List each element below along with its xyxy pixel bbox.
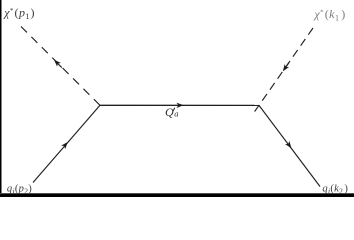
wire: horizontal squark propagator Q'_a: [100, 104, 259, 106]
svg-text:χ*(k1): χ*(k1): [313, 7, 345, 23]
svg-text:a: a: [174, 109, 178, 119]
wire: bottom horizontal rule: [0, 194, 354, 197]
wire: solid quark line q_i(p2) (bottom-left to left vertex): [33, 105, 100, 182]
wire: left border vertical line: [0, 0, 2, 197]
svg-text:qi(k2): qi(k2): [322, 184, 348, 196]
wire: arrow on left dashed line (pointing up-left): [52, 58, 64, 70]
svg-text:qi(p2): qi(p2): [7, 184, 32, 196]
svg-text:Q: Q: [165, 105, 174, 119]
wire: solid quark line q_i(k2) (right vertex to bottom-right): [259, 105, 320, 186]
wire: arrow on right dashed line (pointing down-left): [281, 61, 292, 73]
wire: arrow on horizontal line (pointing right): [176, 103, 183, 108]
wire: dashed chi*(p1) propagator (top-left to left vertex): [21, 27, 100, 106]
node: left vertex: [0, 0, 1, 1]
wire: dashed chi*(k1) propagator (top-right to right vertex, overshoots): [255, 28, 313, 112]
wire: arrow on bottom-right line (pointing down-right): [285, 141, 294, 150]
svg-text:χ*(p1): χ*(p1): [3, 6, 35, 22]
wire: arrow on bottom-left line (pointing up-right): [61, 140, 70, 149]
